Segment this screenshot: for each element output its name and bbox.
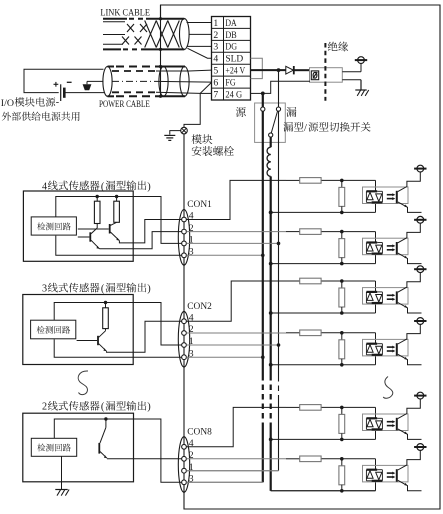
POWER CABLE label [99, 100, 150, 110]
wire CON1 pin2 to channel2 [186, 231, 286, 233]
label 4-wire sensor [42, 180, 151, 192]
svg-text:1: 1 [189, 235, 194, 246]
svg-text:(: ( [101, 402, 105, 413]
junction 4w R2 top [115, 195, 118, 198]
inductor coil L1 [267, 147, 271, 176]
label CON2 [187, 302, 212, 312]
CON1 pin 3 [182, 253, 187, 258]
svg-text:POWER CABLE: POWER CABLE [99, 100, 150, 110]
wire COM bus to channel6 bottom [0, 0, 1, 1]
4-wire sensor box [23, 191, 133, 261]
label sink [286, 107, 296, 117]
wire 24G (terminal 7 to buses) [251, 81, 311, 93]
wire COM bus turn to channel6 [271, 490, 376, 492]
junction shield-power bottom [159, 95, 162, 98]
svg-text:1: 1 [189, 462, 194, 473]
transistor 2w Q [99, 419, 107, 458]
switch SW1 common contact [269, 133, 273, 137]
CON8 pin 4 label [189, 438, 194, 449]
wire shield center left (cable to earth tap) [87, 81, 104, 84]
transistor 4w Q2 [78, 222, 120, 240]
wire fuse box to chassis ground [342, 80, 361, 90]
svg-text:1: 1 [213, 18, 218, 29]
CON8 pin 1 [182, 468, 187, 473]
label 3-wire sensor [42, 283, 151, 295]
svg-text:7: 7 [213, 89, 218, 100]
screw terminal X5 [414, 392, 426, 399]
wire spine CON2-CON8 [183, 367, 185, 437]
wire 4w 0V to CON1 pin3 [56, 236, 182, 256]
wire 3w Q to CON2 pin4 [107, 321, 182, 352]
wire 2w top rail to CON8 pin3 [54, 419, 181, 482]
svg-text:FG: FG [225, 78, 235, 89]
svg-text:1: 1 [189, 336, 194, 347]
svg-text:3: 3 [189, 474, 194, 485]
wire spine through CON2 [183, 311, 185, 367]
junction ch2 COM [269, 262, 273, 266]
screw terminal FG [355, 57, 367, 64]
svg-text:): ) [147, 402, 151, 413]
svg-text:(: ( [101, 284, 105, 295]
wire channel 4 bottom rail [271, 355, 376, 365]
svg-text:LINK CABLE: LINK CABLE [100, 8, 150, 18]
detection circuit box (3-wire) [31, 320, 76, 339]
junction CON1 pin3 / source bus [261, 254, 265, 258]
svg-text:-: - [56, 97, 59, 108]
wire +24V conductor (cable to terminal 5) [156, 69, 212, 72]
POWER CABLE cable [103, 67, 189, 97]
resistor R4b (shunt) [339, 333, 345, 365]
junction CON2 pin1 / +24V bus [277, 343, 281, 347]
wire shield drain (link cable to top boundary) [160, 5, 162, 96]
CON2 pin 4 [182, 319, 187, 324]
label 2-wire sensor [42, 401, 151, 413]
wire channel 5 top rail [286, 407, 376, 418]
junction ch2 bottom [340, 262, 344, 266]
transistor 4w Q1 [78, 224, 100, 249]
label sink/source switch [283, 122, 370, 134]
fuse F1 [311, 71, 318, 80]
break squiggle (between sensors) [78, 371, 88, 395]
wire FG diagonal (junction to terminal 6) [200, 82, 211, 93]
wire +24V (terminal 5 to diode) [251, 69, 286, 71]
wire CON1 pin3 to source bus [186, 254, 262, 256]
3-wire sensor box [23, 295, 133, 365]
resistor 4w R1 [94, 197, 100, 224]
svg-text:DG: DG [225, 42, 237, 53]
resistor R2a (input series) [300, 229, 321, 235]
wire channel 4 top rail [286, 333, 376, 344]
junction ch6 top [340, 457, 344, 461]
resistor R4a (input series) [300, 330, 321, 336]
wire channel 3 bottom rail [271, 303, 376, 313]
bus COM (coil) vertical [270, 176, 272, 490]
wire CON2 pin1 to +24V bus [186, 344, 278, 346]
label CON8 [187, 427, 212, 437]
junction channel1 COM-bus [269, 211, 273, 215]
junction ch1 top [340, 179, 344, 183]
CON8 pin 2 [182, 456, 187, 461]
CON1 pin 1 [182, 241, 187, 246]
wire 4w Q2 to CON1 pin4 [119, 220, 181, 243]
wire channel 1 top rail [286, 180, 376, 191]
bus source (24G) vertical [262, 111, 264, 482]
screw terminal X4 [414, 318, 426, 325]
svg-text:4: 4 [189, 211, 194, 222]
wire 3w +V rail [54, 303, 181, 346]
battery minus sign [67, 81, 72, 83]
svg-text:4: 4 [189, 438, 194, 449]
opto-coupler PC4 [363, 324, 422, 364]
opto-coupler PC3 [363, 273, 422, 313]
svg-text:+24 V: +24 V [225, 66, 245, 77]
CON1 pin 4 [182, 217, 187, 222]
module mounting bolt (circle-X) [181, 127, 188, 134]
CON1 pin 3 label [189, 247, 194, 258]
resistor 4w R2 [114, 197, 120, 223]
screw terminal X2 [414, 216, 426, 223]
junction ch5 bottom [340, 438, 344, 442]
svg-text:): ) [147, 284, 151, 295]
transistor 3w Q [77, 329, 107, 352]
junction ch5 top [340, 406, 344, 410]
connector CON1 shell [178, 210, 189, 266]
junction shield-link top [159, 17, 162, 20]
CON2 pin 3 label [189, 348, 194, 359]
module enclosure outline (shield boundary) [161, 5, 441, 509]
label module mounting bolt [192, 134, 234, 156]
CON1 pin 2 [182, 229, 187, 234]
wire 4w Q1 to CON1 pin2 [100, 232, 182, 249]
CON8 pin 3 [182, 480, 187, 485]
wire 4w +V rail [56, 197, 182, 244]
screw terminal X6 [414, 444, 426, 451]
svg-text:DA: DA [225, 18, 236, 29]
resistor R6a (input series) [300, 456, 321, 462]
wire channel 2 bottom rail [271, 254, 376, 264]
junction ch4 COM [269, 363, 273, 367]
wire 24G conductor (cable to terminal 7) [156, 92, 212, 93]
junction 24G / source-bus [261, 92, 265, 96]
svg-text:3: 3 [189, 247, 194, 258]
switch box [255, 103, 286, 142]
CON8 pin 2 label [189, 450, 194, 461]
svg-text:2: 2 [42, 402, 47, 413]
CON2 pin 1 [182, 343, 187, 348]
wire channel 6 top rail [286, 459, 376, 470]
wire 2w emitter to CON8 pin2 [107, 458, 182, 460]
svg-text:3: 3 [213, 42, 218, 53]
isolation box (power supply) [310, 68, 343, 83]
svg-text:3: 3 [42, 284, 47, 295]
CON8 pin 3 label [189, 474, 194, 485]
wire switch common to coil [270, 137, 272, 147]
CON2 pin 3 [182, 355, 187, 360]
junction ch3 top [340, 279, 344, 283]
resistor R1b (shunt) [339, 180, 345, 212]
earth ground (3 bars) [164, 135, 175, 140]
junction ch1 COM [269, 211, 273, 215]
LINK CABLE label [100, 8, 150, 18]
wire shield center (cable to terminal 6) [156, 80, 212, 83]
resistor 3w R [103, 303, 109, 329]
svg-text:/: / [304, 123, 307, 134]
svg-text:24 G: 24 G [225, 89, 242, 100]
svg-text:CON1: CON1 [187, 200, 212, 210]
chassis ground (2-wire sensor) [55, 490, 69, 496]
svg-text:): ) [147, 181, 151, 192]
wire channel 1 bottom rail [271, 202, 376, 212]
wire channel 2 top rail [286, 232, 376, 243]
junction +24V / sink-bus [277, 68, 281, 72]
svg-text:DB: DB [225, 30, 236, 41]
junction ch6 bottom [340, 489, 344, 493]
CON8 pin 4 [182, 444, 187, 449]
svg-text:I/O: I/O [1, 98, 14, 109]
junction 3w R top [104, 301, 107, 304]
wire spine CON1-CON2 [183, 265, 185, 311]
resistor R3b (shunt) [339, 281, 345, 313]
CON8 pin 1 label [189, 462, 194, 473]
wire channel 5 bottom rail [271, 429, 376, 439]
svg-text:4: 4 [189, 312, 194, 323]
wire CON8 pin2 to channel6 [186, 458, 286, 460]
svg-text:2: 2 [213, 30, 218, 41]
svg-text:5: 5 [213, 66, 218, 77]
switch SW1 source contact [261, 107, 265, 111]
wire SLD diagonal (cable shield to terminal 4) [188, 48, 212, 58]
resistor R5b (shunt) [339, 407, 345, 439]
resistor R1a (input series) [300, 178, 321, 184]
junction 2w collector [104, 417, 107, 420]
wire CON2 pin4 to channel3 [186, 281, 286, 321]
wire bolt to earth [170, 131, 181, 135]
wire SLD-FG jumper [251, 58, 263, 78]
junction ch3 COM [269, 311, 273, 315]
opto-coupler PC5 [363, 399, 422, 439]
svg-text:6: 6 [213, 78, 218, 89]
wire CON8 pin4 to channel5 [186, 407, 286, 446]
battery plus sign [54, 82, 59, 87]
CON2 pin 4 label [189, 312, 194, 323]
resistor R5a (input series) [300, 405, 321, 411]
wire CON8 pin3 to source bus [186, 481, 262, 483]
switch SW1 sink contact [276, 107, 280, 111]
connector CON8 shell [178, 437, 189, 493]
wire source-bus upper (24G junction to switch) [262, 93, 264, 107]
wire DG (cable to terminal 3) [187, 45, 212, 47]
battery BAT (I/O module power) [61, 84, 65, 101]
resistor R2b (shunt) [339, 232, 345, 264]
wire spine through CON1 [183, 210, 185, 266]
wire 3w 0V to CON2 pin3 [54, 339, 181, 357]
wire CON1 pin1 to +24V bus [186, 242, 278, 244]
CON1 pin 2 label [189, 223, 194, 234]
screw terminal X3 [414, 266, 426, 273]
CON1 pin 1 label [189, 235, 194, 246]
wire DB (cable to terminal 2) [189, 33, 212, 35]
wire channel 3 top rail [286, 281, 376, 292]
svg-text:CON2: CON2 [187, 302, 212, 312]
junction ch1 bottom [340, 211, 344, 215]
label CON1 [187, 200, 212, 210]
chassis ground (top right) [355, 90, 368, 96]
wire spine (bolt to CON1) [183, 134, 185, 210]
detection circuit box (4-wire) [31, 217, 76, 235]
wire bolt to FG junction [184, 93, 200, 127]
junction ch4 top [340, 331, 344, 335]
diode D1 [286, 66, 294, 74]
earth tap (solid trapezoid) [83, 84, 92, 90]
junction shield-power top [159, 65, 162, 68]
2-wire sensor box [23, 413, 134, 482]
wire +24V bus to CON8 pin1 [186, 470, 278, 472]
junction CON2 pin3 / source bus [261, 355, 265, 359]
wire sink-bus upper (+24V junction to switch) [278, 70, 280, 107]
wire channel 6 bottom rail [271, 481, 376, 491]
CON2 pin 2 label [189, 324, 194, 335]
wire DA (cable to terminal 1) [187, 21, 212, 23]
switch SW1 lever [271, 111, 277, 133]
svg-text:2: 2 [189, 324, 194, 335]
junction ch4 bottom [340, 363, 344, 367]
CON2 pin 2 [182, 331, 187, 336]
resistor R6b (shunt) [339, 459, 345, 491]
opto-coupler PC6 [363, 450, 422, 490]
wire battery loop [24, 69, 104, 92]
svg-text:CON8: CON8 [187, 427, 212, 437]
svg-text:3: 3 [189, 348, 194, 359]
junction 4w R1 top [96, 195, 99, 198]
label I/O module power [1, 97, 80, 121]
junction shield-link bottom [159, 48, 162, 51]
svg-text:2: 2 [189, 223, 194, 234]
wire 2w 0V to chassis ground [61, 456, 63, 489]
svg-text:4: 4 [213, 54, 218, 65]
wire CON8 pin1 to +24V bus [186, 470, 278, 472]
svg-text:2: 2 [189, 450, 194, 461]
svg-text:SLD: SLD [225, 54, 243, 65]
detection circuit box (2-wire) [31, 438, 76, 456]
wire fuse box to FG screw [342, 64, 361, 72]
label source [236, 107, 246, 117]
screw terminal X1 [414, 165, 426, 172]
LINK CABLE twisted-pair cable [103, 19, 189, 50]
wire diode to fuse box [294, 69, 310, 71]
junction ch5 COM [269, 438, 273, 442]
connector CON2 shell [178, 311, 189, 367]
opto-coupler PC2 [363, 223, 422, 263]
junction ch2 top [340, 230, 344, 234]
wire source bus to CON8 pin3 [186, 481, 262, 483]
junction CON1 pin1 / +24V bus [277, 242, 281, 246]
terminal block TB1 (pins 1-7: DA DB DG SLD +24V FG 24G) [212, 17, 251, 101]
break squiggle (channel area) [383, 377, 393, 399]
wire spine through CON8 [183, 437, 185, 493]
resistor R3a (input series) [300, 278, 321, 284]
wire CON1 pin4 to channel1 [186, 180, 286, 219]
CON2 pin 1 label [189, 336, 194, 347]
wire CON2 pin3 to source bus [186, 356, 262, 358]
isolation dashed line [324, 43, 326, 101]
bus +24V (sink) vertical [278, 111, 280, 471]
junction ch3 bottom [340, 311, 344, 315]
CON1 pin 4 label [189, 211, 194, 222]
opto-coupler PC1 [363, 172, 422, 212]
wire CON2 pin2 to channel4 [186, 332, 286, 334]
label insulation [328, 42, 348, 52]
